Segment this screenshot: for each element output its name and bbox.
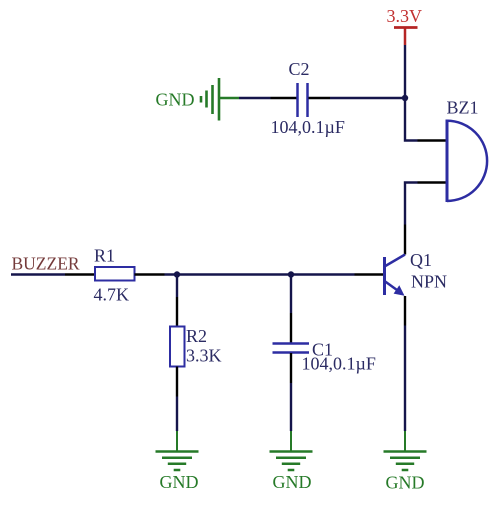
pin C2 right	[309, 97, 331, 99]
wire 3.3V to junction	[404, 45, 406, 98]
svg-text:BUZZER: BUZZER	[12, 254, 80, 274]
wire GND to C2	[239, 97, 271, 99]
svg-text:R1: R1	[94, 246, 115, 266]
node junction top	[402, 95, 408, 101]
power port 3.3V stub	[404, 28, 407, 46]
pin C1 bottom	[290, 353, 292, 383]
ground symbol top-left (power ground, bars)	[201, 78, 239, 121]
resistor R1	[95, 267, 135, 281]
transistor Q1 collector stroke	[385, 255, 406, 267]
pin C1 top	[290, 313, 292, 343]
svg-text:C2: C2	[289, 59, 310, 79]
ground stem right	[404, 431, 406, 452]
pin Q1 collector	[404, 225, 406, 255]
svg-text:Q1: Q1	[410, 250, 432, 270]
svg-text:BZ1: BZ1	[447, 98, 479, 118]
wire emitter to GND	[404, 326, 406, 432]
svg-text:104,0.1µF: 104,0.1µF	[302, 354, 376, 374]
pin BZ1 bottom	[418, 181, 447, 183]
wire R2 to GND	[176, 397, 178, 432]
wire buzzer bottom to collector	[405, 183, 418, 225]
wire BUZZER to R1	[11, 273, 65, 275]
svg-text:GND: GND	[160, 472, 199, 492]
svg-text:GND: GND	[386, 473, 425, 493]
svg-text:3.3V: 3.3V	[387, 6, 423, 26]
transistor Q1 emitter stroke	[385, 281, 399, 291]
transistor Q1 emitter arrow	[394, 285, 405, 296]
ground stem middle	[290, 431, 292, 452]
buzzer BZ1 body	[446, 120, 449, 203]
svg-text:4.7K: 4.7K	[94, 285, 130, 305]
wire C2 to junction	[330, 97, 405, 99]
pin Q1 base	[355, 273, 384, 275]
wire junction down to buzzer top elbow	[405, 98, 418, 141]
wire R1 to base	[165, 273, 355, 275]
pin R1 left	[65, 273, 95, 275]
ground symbol left	[156, 452, 199, 471]
ground symbol middle	[270, 452, 313, 471]
node junction R2	[174, 271, 180, 277]
pin R1 right	[135, 273, 165, 275]
ground stem left	[176, 431, 178, 452]
pin C2 left	[271, 97, 297, 99]
svg-text:NPN: NPN	[411, 272, 447, 292]
transistor Q1 base bar	[383, 257, 386, 295]
capacitor C1 plates	[273, 342, 310, 345]
svg-text:3.3K: 3.3K	[186, 346, 222, 366]
pin R2 top	[176, 297, 178, 327]
pin R2 bottom	[176, 367, 178, 397]
wire junction to R2	[176, 275, 178, 298]
svg-text:R2: R2	[186, 326, 207, 346]
svg-text:GND: GND	[273, 472, 312, 492]
power port 3.3V bar	[394, 26, 418, 29]
svg-text:104,0.1µF: 104,0.1µF	[271, 117, 345, 137]
wire junction to C1	[290, 275, 292, 314]
wire C1 to GND	[290, 383, 292, 431]
pin Q1 emitter	[404, 296, 406, 326]
svg-text:GND: GND	[156, 90, 195, 110]
resistor R2	[170, 327, 185, 367]
capacitor C2 plates	[296, 83, 299, 117]
pin BZ1 top	[418, 139, 447, 141]
node junction C1	[288, 271, 294, 277]
ground symbol right	[384, 452, 427, 471]
